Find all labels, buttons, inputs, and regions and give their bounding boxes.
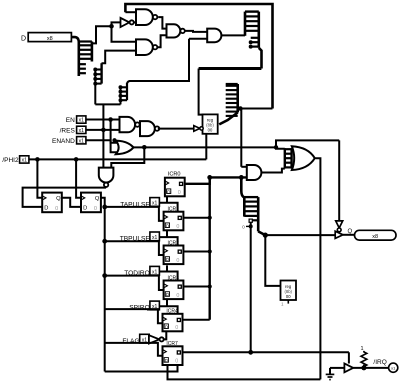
wire ICR5 reset feedback [168, 365, 321, 379]
input pin TODIRQ x1 [150, 266, 160, 275]
bus wire horizontal [199, 67, 262, 70]
flip-flop ICR5 [163, 346, 183, 365]
wire NAND2 out [158, 35, 167, 47]
wire J5 branch [111, 120, 118, 153]
wire SP6 top link [241, 177, 244, 197]
node J5b [112, 138, 116, 142]
svg-text:0: 0 [176, 293, 179, 299]
node spine ICR2 [102, 239, 107, 244]
wire reg clock down to PHI2 line [205, 134, 207, 160]
wire J15 into ladder [276, 147, 285, 149]
node Qbus ICR2 [208, 249, 212, 253]
input pin TBPULSE x1 [150, 232, 160, 241]
input pin /RES x1 [77, 126, 86, 134]
wire EN to NAND5 [86, 119, 120, 121]
wire FLAG inverter out [164, 331, 167, 339]
input pin TAPULSE x1 [150, 198, 160, 207]
flip-flop ICR0 [165, 178, 185, 197]
wire J14 down to reg2 [265, 235, 280, 286]
wire spine to ICR4 clock [105, 309, 163, 323]
flip-flop ICR1 [164, 212, 184, 231]
nand gate G3 (NAND2) [136, 39, 157, 55]
splitter SP3 comb [119, 83, 128, 105]
node J7 [142, 145, 147, 150]
svg-text:EN: EN [66, 117, 75, 124]
wire NAND6 out left loop [23, 187, 107, 207]
flip-flop ICR2 [164, 246, 184, 265]
flip-flop ICR3 [164, 281, 184, 300]
wire bus bit to AND4 input [189, 38, 207, 40]
wire buffer out to IRQ [353, 367, 388, 369]
wire SPIRQ [159, 299, 177, 314]
wire spine to ICR2 clock [105, 241, 164, 255]
wire OR out up over [276, 140, 339, 147]
wire G13 out down [315, 158, 320, 379]
wire ICR4 Q out [183, 319, 210, 321]
wire spine to ICR1 clock [105, 207, 164, 221]
splitter SP6 [244, 197, 258, 231]
wire branch down to J13 [250, 222, 252, 352]
inverter G9 [194, 126, 203, 132]
node J10 [102, 205, 107, 210]
nand gate G7 [140, 121, 159, 136]
wire AND5 out to OR ladder [261, 169, 284, 173]
wire bus down left [102, 104, 104, 167]
flip-flop ICR4 [163, 314, 183, 332]
input pin EN x1 [77, 116, 86, 124]
wire SP6 bus out [258, 231, 265, 235]
wire FF2 Q to node [101, 198, 105, 207]
svg-text:00: 00 [286, 294, 291, 299]
svg-text:0: 0 [94, 206, 97, 212]
svg-text:x1: x1 [152, 201, 158, 207]
wire AND4 out to splitter SP4 [221, 34, 245, 36]
svg-text:x8: x8 [47, 36, 53, 42]
wire J14 to buffer [265, 234, 335, 236]
wire node J4 down [240, 109, 242, 167]
node J11 [207, 175, 212, 180]
svg-text:0: 0 [176, 258, 179, 264]
wire resistor to node [363, 365, 365, 368]
splitter SP5 [226, 84, 238, 116]
and gate G5 (AND4) [207, 29, 221, 43]
wire PHI2 to FF2 clock [76, 159, 81, 197]
node J4 [238, 106, 243, 111]
wire splitter bit to NAND2 input B [102, 51, 137, 64]
wire spine bottom loop [105, 365, 178, 372]
node SP6 pin [249, 224, 253, 228]
nand gate G6 (NAND5) [120, 117, 140, 132]
wire SP2 to lower bus [94, 84, 96, 105]
wire TODIRQ [159, 265, 177, 280]
output pin Q x8 [355, 230, 397, 240]
node J5 [108, 117, 113, 122]
node J13 [248, 350, 253, 355]
wire to NAND1 input A [125, 11, 136, 13]
wire TAPULSE [159, 196, 177, 211]
node J12 [239, 175, 244, 180]
wire SP6 pin stub [246, 225, 251, 227]
wire ICR2 Q out [183, 251, 209, 253]
wire NAND3 out [185, 31, 207, 32]
or gate G13 input ladder [285, 148, 292, 168]
nand gate G10 (south facing) [99, 168, 114, 187]
wire inverter to NAND1 [134, 21, 136, 23]
wire OR out [134, 146, 277, 148]
svg-text:1: 1 [360, 346, 363, 352]
svg-text:0: 0 [242, 225, 245, 231]
svg-text:0: 0 [176, 224, 179, 230]
svg-text:D: D [83, 206, 87, 212]
input pin D x8 [28, 33, 71, 42]
wire spine to ICR3 clock [105, 276, 164, 290]
svg-text:ENAND: ENAND [52, 138, 75, 145]
clock spine vertical [104, 207, 106, 372]
node J6 [101, 128, 106, 133]
inverter G1 [121, 18, 134, 27]
svg-text:D: D [44, 206, 48, 212]
wire ICR3 Q out [183, 286, 209, 288]
svg-text:00: 00 [208, 128, 213, 133]
svg-text:x1: x1 [79, 118, 85, 124]
node J16 [361, 365, 366, 370]
register box U2 [281, 281, 297, 301]
and gate G12 (AND5) [247, 165, 262, 180]
svg-text:0: 0 [55, 206, 58, 212]
ground symbol [326, 368, 335, 380]
flip-flop FF1 [42, 193, 62, 213]
node Qbus ICR3 [208, 284, 212, 288]
wire NOR out [158, 128, 194, 130]
wire PHI2 to FF1 clock [37, 159, 42, 197]
wire reg2 bottom pin [287, 300, 289, 304]
svg-text:/PHI2: /PHI2 [2, 157, 19, 164]
resistor R1 [361, 351, 367, 368]
wire SP5 bit to feedback [238, 108, 273, 110]
wire ground to buffer [330, 367, 344, 369]
splitter SP1 (D bus fanout) [79, 42, 92, 77]
input pin FLAG x1 [140, 334, 150, 343]
wire ENAND to OR1 [86, 140, 118, 143]
splitter SP2 comb [93, 63, 101, 85]
nand gate G2 (NAND1) [136, 9, 157, 25]
node J9 [74, 157, 79, 162]
wire /RES to NAND5 [86, 129, 120, 131]
wire FF1 Q to FF2 D [62, 198, 81, 207]
buffer G15 [335, 231, 343, 238]
wire NAND1 out [158, 17, 166, 29]
node J1 [109, 24, 114, 29]
svg-text:x8: x8 [372, 234, 378, 240]
flip-flop FF2 [81, 193, 101, 213]
or gate G8 [116, 141, 134, 155]
nand gate G4 (NAND3) [167, 24, 185, 37]
svg-text:Q: Q [95, 196, 100, 202]
tri-state buffer G16 [344, 364, 353, 373]
wire ICR5 Q out long [183, 351, 349, 353]
wire ICR1 Q out [183, 217, 209, 219]
or gate G13 [292, 146, 315, 170]
wire TBPULSE [159, 230, 177, 245]
wire PHI2 line [29, 158, 206, 160]
svg-text:Q: Q [56, 196, 61, 202]
node spine ICR3 [102, 273, 107, 278]
svg-text:/IRQ: /IRQ [373, 359, 386, 366]
svg-text:x1: x1 [79, 128, 85, 134]
svg-text:0: 0 [178, 190, 181, 196]
wire enable down [348, 352, 350, 363]
register box U1 [203, 114, 218, 133]
svg-text:0: 0 [175, 325, 178, 331]
wire ICR0 Q out [184, 177, 210, 183]
splitter SP6 pin [249, 219, 252, 222]
svg-text:x1: x1 [22, 158, 28, 164]
svg-text:/RES: /RES [60, 128, 76, 135]
node J15 [274, 145, 278, 149]
inverter G11 [149, 335, 164, 343]
input pin SPIRQ x1 [150, 301, 160, 310]
svg-text:0: 0 [175, 359, 178, 365]
node J8 [35, 157, 40, 162]
wire SP4 to bus corner [259, 48, 262, 69]
wire feedback top loop [125, 4, 272, 109]
node J14 [263, 233, 268, 238]
svg-text:TAPULSE: TAPULSE [120, 201, 150, 208]
wire splitter bit to inverter node [92, 26, 112, 43]
wire down to inverter G14 [338, 140, 340, 221]
splitter SP4 [245, 12, 259, 49]
wire node J1 up to inverter [112, 22, 121, 26]
wire D bus to splitter [71, 37, 78, 41]
inverter G14 (south) [336, 221, 343, 232]
wire J7 down to NAND6 [111, 147, 144, 167]
wire buffer to Q pin [343, 234, 355, 236]
wire spine to ICR5 clock [105, 343, 163, 356]
wire bus branch down to reg [199, 69, 206, 115]
Q bus vertical [208, 177, 210, 319]
wire J4 to AND top input [241, 166, 247, 168]
wire SP5 bus to reg box [219, 113, 238, 125]
wire to AND input [210, 176, 247, 178]
wire SP3 up to bus [127, 39, 189, 84]
svg-text:D: D [21, 36, 26, 43]
svg-text:x1: x1 [79, 138, 85, 144]
wire node J1 down to NAND2 [112, 26, 137, 42]
output pin /IRQ x1 [389, 363, 398, 372]
node Qbus ICR1 [208, 216, 212, 220]
input pin /PHI2 x1 [20, 156, 29, 164]
wire SP2-SP3 link [95, 103, 120, 105]
input pin ENAND x1 [77, 137, 86, 145]
